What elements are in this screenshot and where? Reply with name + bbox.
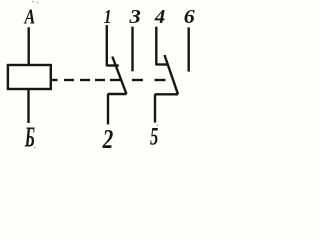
svg-text:2: 2 (102, 125, 114, 153)
svg-text:Б: Б (24, 122, 35, 153)
svg-text:6: 6 (184, 5, 196, 28)
svg-text:3: 3 (128, 5, 141, 28)
svg-text:5: 5 (150, 122, 159, 150)
svg-text:4: 4 (154, 7, 166, 28)
svg-text:А: А (24, 5, 36, 28)
svg-text:1: 1 (104, 5, 112, 27)
